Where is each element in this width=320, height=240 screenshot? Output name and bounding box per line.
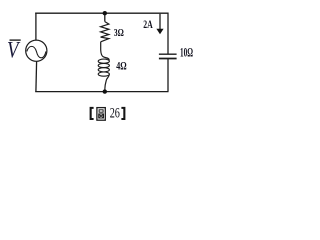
resistor 3ohm [101,22,109,42]
wire middle branch top [104,13,106,21]
capacitor 10ohm [159,53,177,55]
junction dot top [103,11,107,15]
svg-text:4Ω: 4Ω [116,61,126,73]
wire left lower [35,61,38,91]
wire bottom [35,91,168,93]
voltage source V [26,40,47,61]
caption bracket left [90,107,94,120]
label V bar [10,39,21,41]
wire right lower [167,59,169,92]
svg-text:26: 26 [110,106,120,122]
svg-text:10Ω: 10Ω [180,45,193,59]
caption bracket right [121,107,125,120]
svg-text:3Ω: 3Ω [114,27,124,39]
wire top [35,12,168,14]
caption glyph box tu [97,108,105,121]
wire left upper [35,13,37,40]
svg-text:2A: 2A [143,18,153,31]
junction dot bottom [103,89,107,93]
wire right upper [167,13,169,54]
inductor 4ohm [101,42,110,60]
current arrow 2A [159,14,161,30]
